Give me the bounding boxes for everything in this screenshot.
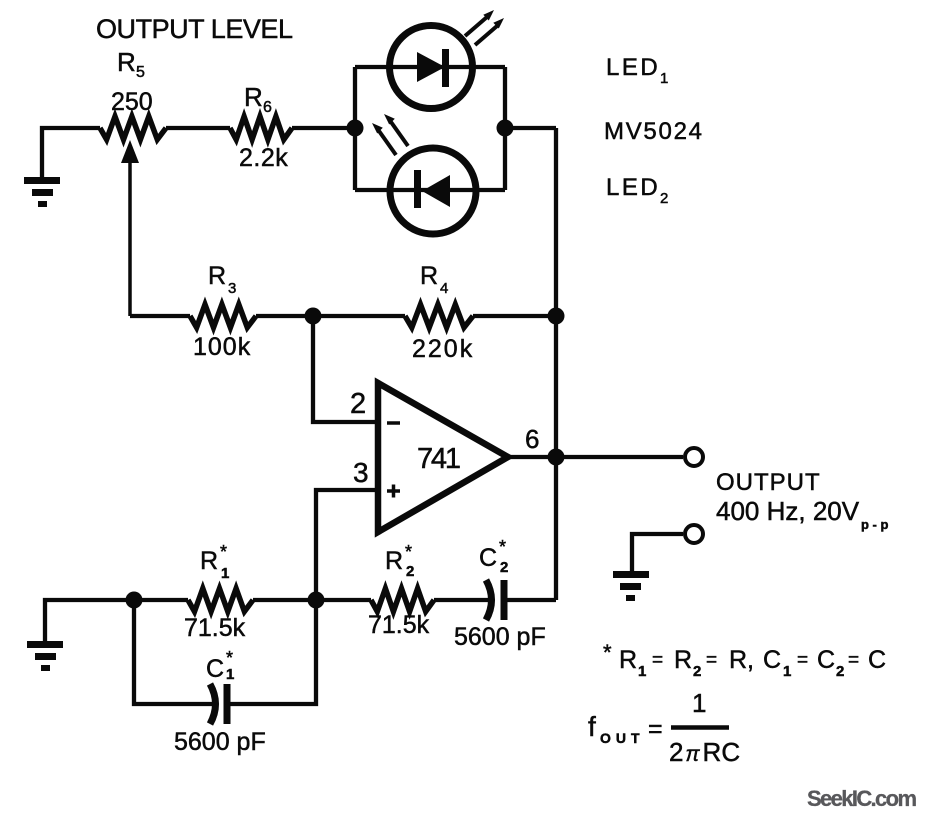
svg-text:1: 1 — [221, 565, 229, 582]
wire R5 to R6 — [166, 126, 230, 130]
svg-text:C: C — [868, 646, 886, 674]
node R3/R4 — [305, 308, 322, 325]
wire LED1 branch top — [355, 65, 505, 69]
svg-text:=: = — [706, 650, 717, 671]
svg-text:OUTPUT: OUTPUT — [716, 469, 821, 496]
LED LED1 — [390, 26, 473, 109]
svg-text:R: R — [208, 262, 226, 290]
svg-text:1: 1 — [638, 663, 646, 680]
svg-text:400 Hz, 20V: 400 Hz, 20V — [716, 496, 860, 526]
note equality — [603, 640, 886, 680]
svg-text:5600 pF: 5600 pF — [454, 623, 546, 651]
svg-text:R: R — [619, 646, 637, 674]
svg-text:6: 6 — [525, 424, 539, 454]
svg-text:741: 741 — [417, 443, 461, 475]
svg-text:3: 3 — [353, 457, 369, 488]
wire return terminal — [632, 534, 683, 572]
svg-text:p - p: p - p — [861, 517, 888, 532]
wire left ground corner to R5 — [42, 128, 100, 178]
ground bottom left — [27, 641, 63, 671]
wire R3 row — [130, 314, 190, 318]
svg-text:3: 3 — [228, 280, 236, 297]
terminal return — [685, 525, 703, 543]
wire noninverting input — [316, 490, 378, 600]
node bridge right — [497, 120, 514, 137]
node R4 right — [548, 308, 565, 325]
svg-text:R,: R, — [729, 646, 754, 674]
svg-text:5600 pF: 5600 pF — [174, 728, 266, 756]
terminal output — [685, 448, 703, 466]
svg-text:2: 2 — [693, 663, 701, 680]
wire output — [508, 455, 683, 459]
op-amp U1 741 — [378, 383, 508, 532]
svg-text:*: * — [220, 542, 227, 562]
svg-text:*: * — [499, 537, 506, 557]
wire R1 to node — [253, 598, 371, 602]
svg-text:R: R — [674, 646, 692, 674]
node output — [548, 449, 565, 466]
capacitor C1 — [210, 684, 216, 724]
wire R3 to node — [256, 314, 313, 318]
capacitor C2 — [486, 580, 492, 620]
svg-text:C: C — [206, 655, 224, 683]
svg-text:=: = — [848, 650, 859, 671]
resistor R4 — [405, 305, 473, 328]
svg-text:R: R — [385, 547, 403, 575]
svg-text:1: 1 — [783, 663, 791, 680]
svg-text:LED: LED — [606, 54, 660, 81]
node R1/R2 — [308, 592, 325, 609]
svg-text:4: 4 — [440, 280, 448, 297]
svg-text:C: C — [817, 646, 835, 674]
svg-text:LED: LED — [606, 174, 660, 201]
svg-text:2: 2 — [406, 563, 414, 580]
svg-text:R: R — [117, 47, 136, 77]
svg-text:2πRC: 2πRC — [669, 737, 740, 767]
wire R2 to C2 — [434, 598, 490, 602]
svg-text:1: 1 — [692, 688, 706, 718]
node R1 left — [126, 592, 143, 609]
wire LED bridge left vertical — [353, 67, 357, 190]
svg-text:100k: 100k — [193, 333, 251, 361]
wire inverting input — [313, 316, 378, 422]
wire LED bridge right vertical — [503, 67, 507, 190]
svg-text:220k: 220k — [412, 335, 474, 363]
svg-text:R: R — [200, 547, 218, 575]
resistor R2 — [371, 589, 434, 612]
svg-text:=: = — [797, 650, 808, 671]
wire C2 to vertical — [504, 598, 556, 602]
svg-text:2: 2 — [350, 388, 366, 420]
ground — [24, 177, 60, 207]
wire R5 wiper — [128, 158, 132, 316]
wire R4 to main vertical — [473, 314, 556, 318]
svg-text:SeekIC.com: SeekIC.com — [807, 786, 917, 811]
svg-text:R: R — [420, 262, 438, 290]
op-amp minus — [387, 421, 400, 425]
resistor R5 — [100, 117, 166, 140]
svg-text:71.5k: 71.5k — [368, 611, 430, 639]
node bridge left — [347, 120, 364, 137]
svg-text:1: 1 — [660, 70, 668, 87]
svg-text:2.2k: 2.2k — [239, 144, 288, 172]
svg-text:C: C — [763, 646, 781, 674]
svg-text:OUT: OUT — [600, 730, 645, 746]
svg-text:250: 250 — [111, 88, 153, 116]
svg-text:71.5k: 71.5k — [184, 614, 246, 642]
resistor R6 — [230, 117, 292, 140]
svg-text:6: 6 — [263, 99, 272, 116]
svg-text:C: C — [479, 544, 497, 572]
svg-text:1: 1 — [226, 666, 234, 683]
resistor R3 — [190, 305, 256, 328]
svg-text:=: = — [652, 650, 663, 671]
svg-text:*: * — [603, 640, 612, 665]
svg-text:MV5024: MV5024 — [604, 118, 702, 145]
wire LED2 branch bottom — [355, 188, 505, 192]
op-amp plus — [387, 485, 400, 498]
wire C1 loop left — [134, 600, 214, 704]
svg-text:*: * — [226, 648, 233, 668]
svg-text:2: 2 — [660, 190, 668, 207]
LED LED2 — [390, 148, 476, 234]
wire R6 to LED bridge — [292, 126, 355, 130]
wire C1 loop right — [227, 600, 316, 704]
svg-text:OUTPUT LEVEL: OUTPUT LEVEL — [96, 14, 293, 44]
svg-text:R: R — [244, 82, 263, 112]
wire node to R4 — [313, 314, 405, 318]
svg-text:f: f — [588, 711, 596, 742]
wire main right vertical — [554, 128, 558, 600]
svg-text:*: * — [405, 542, 412, 562]
svg-text:2: 2 — [500, 559, 508, 576]
svg-text:2: 2 — [836, 663, 844, 680]
wire bridge to main vertical — [505, 126, 556, 130]
resistor R1 — [188, 589, 253, 612]
svg-text:=: = — [648, 715, 663, 743]
formula fout — [588, 688, 740, 767]
ground right — [613, 571, 649, 601]
svg-text:5: 5 — [136, 64, 145, 81]
wire bottom left ground riser — [45, 600, 188, 641]
